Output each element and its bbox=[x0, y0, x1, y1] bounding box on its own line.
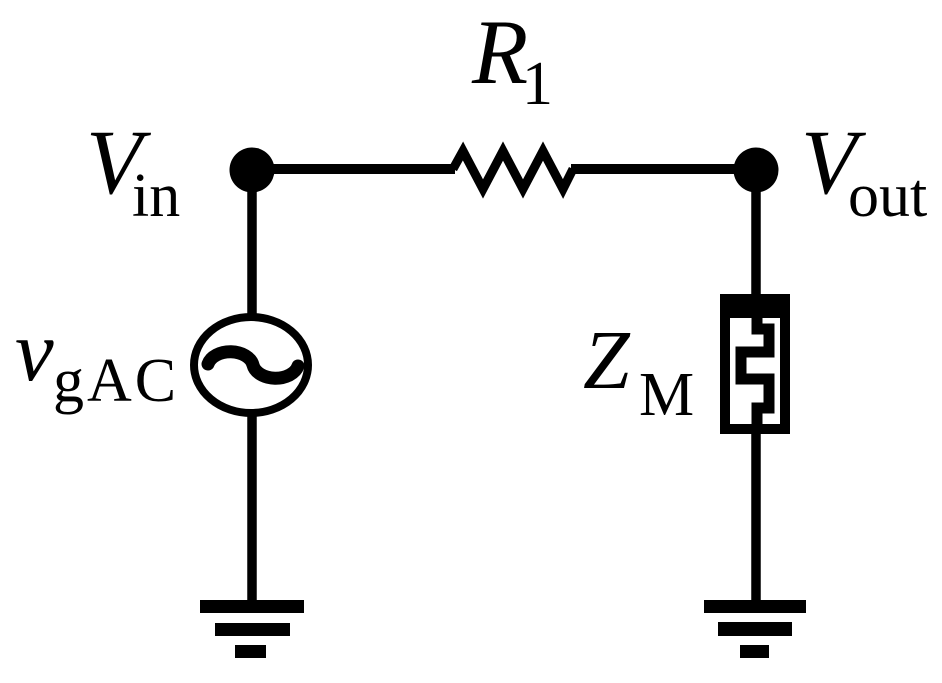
wire Vin to resistor bbox=[252, 164, 455, 174]
ground right bbox=[704, 600, 806, 658]
wire Vin node down to source bbox=[247, 170, 257, 315]
label vgAC bbox=[15, 302, 179, 415]
svg-text:out: out bbox=[848, 162, 927, 230]
svg-text:M: M bbox=[639, 361, 694, 429]
ac source vgAC bbox=[194, 317, 308, 413]
label Vout bbox=[801, 111, 927, 230]
svg-text:gAC: gAC bbox=[53, 347, 179, 415]
ground left bbox=[200, 600, 304, 658]
svg-text:1: 1 bbox=[522, 50, 553, 118]
svg-text:R: R bbox=[471, 1, 528, 103]
resistor R1 bbox=[453, 151, 573, 189]
label ZM bbox=[583, 314, 694, 429]
wire Vout node down to memristor bbox=[751, 170, 761, 300]
svg-text:v: v bbox=[15, 302, 54, 399]
svg-text:in: in bbox=[132, 162, 180, 230]
memristor ZM bbox=[720, 294, 790, 432]
label R1 bbox=[471, 1, 553, 118]
wire resistor to Vout bbox=[571, 164, 756, 174]
wire memristor down to ground bbox=[751, 430, 761, 604]
wire source down to ground bbox=[247, 413, 257, 604]
node Vin bbox=[230, 148, 275, 193]
label Vin bbox=[86, 111, 180, 230]
node Vout bbox=[734, 148, 779, 193]
svg-text:Z: Z bbox=[583, 314, 631, 407]
